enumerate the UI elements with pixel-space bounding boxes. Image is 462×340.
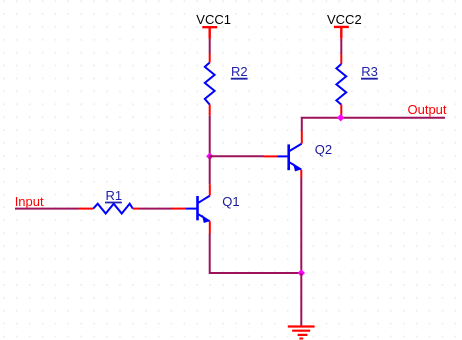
svg-text:Q2: Q2 — [315, 142, 332, 157]
svg-text:Q1: Q1 — [222, 194, 239, 209]
label R2 — [231, 64, 248, 79]
svg-text:VCC1: VCC1 — [196, 12, 231, 27]
label Q1 — [222, 194, 239, 209]
wire to ground — [300, 273, 302, 325]
svg-text:R3: R3 — [361, 64, 378, 79]
net label VCC2 — [327, 12, 362, 27]
svg-text:R2: R2 — [231, 64, 248, 79]
wire R1 to Q1 base — [140, 208, 172, 210]
ground — [288, 327, 315, 339]
label R3 — [361, 64, 378, 79]
resistor R3 — [336, 54, 346, 118]
svg-text:Input: Input — [15, 194, 44, 209]
power symbol VCC2 — [334, 27, 349, 39]
junction node output — [337, 114, 344, 121]
label Q2 — [315, 142, 332, 157]
net label VCC1 — [196, 12, 231, 27]
net label Output — [408, 102, 447, 117]
wire node A to Q1 collector — [209, 156, 211, 184]
wire Q2 emitter down — [300, 178, 302, 274]
wire output rail — [302, 118, 445, 131]
wire VCC1 to R2 — [209, 39, 211, 54]
wire Q1 emitter down and bottom rail — [210, 234, 302, 274]
transistor Q1 — [172, 184, 210, 233]
net label Input — [15, 194, 44, 209]
svg-text:R1: R1 — [106, 188, 123, 203]
svg-text:Output: Output — [408, 102, 447, 117]
label R1 — [105, 188, 122, 203]
junction node ground — [298, 269, 305, 276]
resistor R2 — [205, 54, 215, 116]
resistor R1 — [79, 204, 141, 214]
junction node A — [206, 153, 213, 160]
wire node A to Q2 base — [210, 155, 264, 157]
power symbol VCC1 — [202, 27, 217, 38]
transistor Q2 — [264, 131, 302, 178]
wire VCC2 to R3 — [340, 39, 342, 54]
svg-text:VCC2: VCC2 — [327, 12, 362, 27]
wire input — [15, 208, 79, 210]
wire R2 to node A — [209, 116, 211, 157]
